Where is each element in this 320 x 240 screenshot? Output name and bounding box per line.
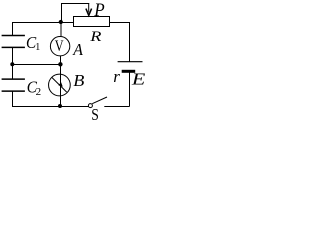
- wire middle branch: [13, 64, 61, 66]
- svg-text:r: r: [113, 67, 120, 86]
- svg-text:E: E: [131, 71, 146, 89]
- wire bottom rail right: [104, 106, 129, 108]
- wire riser to wiper: [61, 3, 63, 23]
- wire right rail upper: [129, 23, 131, 62]
- wiper arrow P: [86, 3, 92, 15]
- svg-text:1: 1: [35, 42, 40, 53]
- wire wiper top: [61, 3, 89, 5]
- node dot left mid: [10, 62, 14, 66]
- wire left rail top: [12, 23, 14, 36]
- rheostat R: [74, 17, 110, 27]
- wire top rail left: [12, 22, 74, 24]
- node dot junction top: [59, 20, 63, 24]
- wire bottom rail left: [12, 106, 89, 108]
- wire left rail mid: [12, 48, 14, 80]
- galvanometer B: [49, 74, 71, 96]
- svg-text:2: 2: [36, 86, 42, 98]
- wire top rail right: [109, 22, 130, 24]
- voltmeter A: [50, 37, 69, 56]
- capacitor C1: [2, 36, 25, 48]
- svg-text:R: R: [89, 27, 101, 44]
- svg-text:A: A: [72, 40, 84, 60]
- svg-text:P: P: [93, 0, 104, 20]
- svg-text:S: S: [91, 105, 99, 123]
- node dot bottom: [58, 104, 62, 108]
- wire meter chain through B: [60, 56, 62, 107]
- wire voltmeter top stub: [60, 23, 62, 37]
- capacitor C2: [2, 79, 25, 91]
- wire left rail bottom: [12, 91, 14, 106]
- switch S: [88, 97, 107, 108]
- node dot center mid: [58, 62, 62, 66]
- battery E long plate: [118, 61, 143, 63]
- svg-text:V: V: [55, 38, 64, 55]
- battery E short plate: [122, 70, 136, 73]
- svg-text:B: B: [73, 72, 85, 90]
- wire right rail lower: [129, 72, 131, 107]
